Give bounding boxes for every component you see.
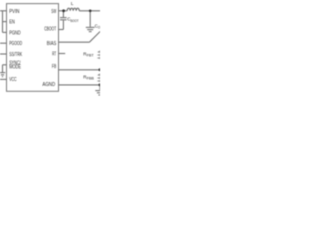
svg-text:MODE: MODE [9,65,21,71]
svg-text:L: L [71,1,74,6]
svg-text:VCC: VCC [9,77,17,83]
svg-text:AGND: AGND [42,82,55,88]
svg-text:FB: FB [52,64,57,70]
svg-text:CO: CO [95,24,100,30]
svg-text:PGND: PGND [9,30,21,36]
svg-text:RFBB: RFBB [83,74,95,80]
svg-text:PGOOD: PGOOD [9,41,22,47]
svg-text:PVIN: PVIN [9,9,20,15]
svg-text:SS/TRK: SS/TRK [9,52,22,58]
svg-text:BIAS: BIAS [47,41,57,47]
svg-text:EN: EN [9,20,15,26]
svg-text:RFBT: RFBT [83,51,93,57]
svg-text:SW: SW [51,9,56,15]
svg-text:CBOOT: CBOOT [67,17,78,23]
svg-text:CBOOT: CBOOT [44,27,56,33]
svg-text:RT: RT [52,52,56,58]
